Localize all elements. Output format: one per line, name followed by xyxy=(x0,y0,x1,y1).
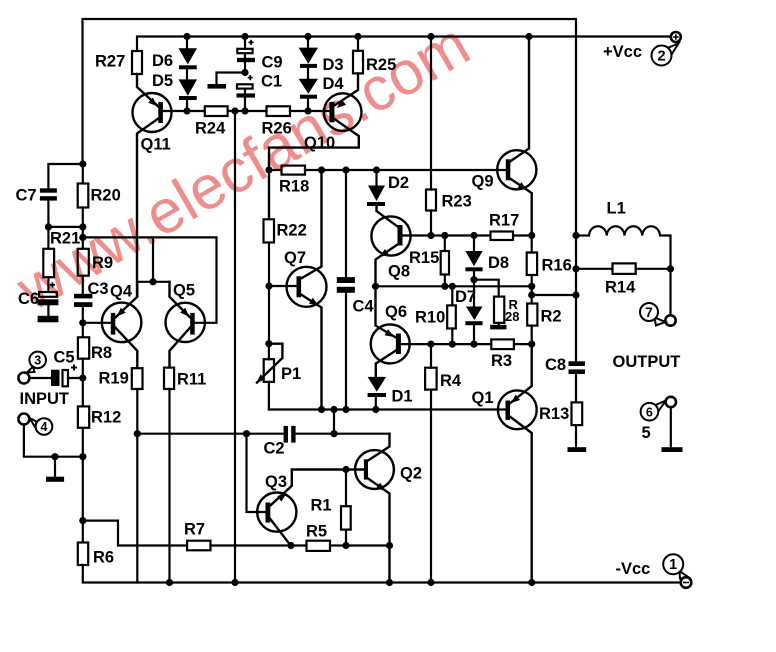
junction R18 left xyxy=(265,166,272,173)
wire C4 column xyxy=(345,170,347,410)
svg-text:Q11: Q11 xyxy=(141,136,171,154)
ground R28 xyxy=(490,325,506,330)
svg-text:R14: R14 xyxy=(605,279,636,297)
wire Q1 base line y=409.5 xyxy=(269,408,506,410)
svg-text:D5: D5 xyxy=(152,72,173,90)
svg-text:C5: C5 xyxy=(54,349,75,367)
wire Q8 base xyxy=(403,234,432,236)
svg-text:D2: D2 xyxy=(388,174,409,192)
junction Q4 base node xyxy=(79,319,86,326)
junction R2 bottom node xyxy=(528,341,535,348)
svg-text:C2: C2 xyxy=(264,440,285,458)
wire R23 bottom xyxy=(430,211,432,236)
wire R15 stubs xyxy=(444,236,446,287)
resistor R7 xyxy=(187,541,210,551)
wire feedback top border xyxy=(83,19,577,236)
capacitor C4 xyxy=(337,277,355,293)
terminal output gnd circle xyxy=(666,397,676,407)
junction Q7 collector top xyxy=(318,166,325,173)
terminal 3 xyxy=(27,352,46,373)
wire C7 top link xyxy=(48,164,82,188)
resistor R16 xyxy=(527,253,537,276)
junction bias x=245 xyxy=(241,107,248,114)
svg-text:5: 5 xyxy=(642,424,651,442)
resistor R10 xyxy=(447,305,456,328)
svg-text:R5: R5 xyxy=(306,523,327,541)
junction R1 top xyxy=(342,466,349,473)
junction D3 top xyxy=(304,33,311,40)
diode D5 xyxy=(179,79,198,100)
wire C7 bottom xyxy=(47,201,49,249)
junction D4 bottom xyxy=(304,107,311,114)
junction D8 bottom xyxy=(470,276,477,283)
resistor R12 xyxy=(78,406,89,427)
capacitor C6 xyxy=(38,282,59,305)
wire output link y=295 xyxy=(532,294,576,296)
junction D6 top xyxy=(183,33,190,40)
junction D5 bottom xyxy=(183,107,190,114)
svg-text:Q9: Q9 xyxy=(472,173,494,191)
svg-text:R16: R16 xyxy=(542,257,572,275)
terminal 6 xyxy=(641,401,666,421)
wire diff tail drop xyxy=(152,237,154,281)
wire D1 bottom xyxy=(375,397,377,410)
resistor R4 xyxy=(425,368,437,390)
wire R1 stubs xyxy=(345,470,347,546)
wire D6-D5 chain xyxy=(186,37,188,112)
wire +Vcc terminal lead xyxy=(670,35,672,37)
transistor Q5 xyxy=(166,282,205,368)
wire D7 stubs xyxy=(473,280,475,344)
wire R23 feed xyxy=(430,37,432,190)
svg-text:R6: R6 xyxy=(93,549,114,567)
junction R4 top xyxy=(427,341,434,348)
diode D3 xyxy=(299,48,318,68)
ground C8-R13 xyxy=(568,447,587,452)
junction R10 top xyxy=(449,283,456,290)
ground mid reference bar xyxy=(208,84,227,89)
wire D3-D4 chain xyxy=(307,37,309,112)
junction C9 top xyxy=(241,33,248,40)
wire output gnd xyxy=(670,407,672,447)
diode D6 xyxy=(179,48,198,69)
junction R23 top rail xyxy=(427,33,434,40)
svg-text:R7: R7 xyxy=(184,521,205,539)
transistor Q1 xyxy=(498,344,537,582)
junction x235 rail xyxy=(231,579,238,586)
resistor R19 xyxy=(132,368,143,389)
svg-text:C1: C1 xyxy=(261,73,282,91)
svg-text:6: 6 xyxy=(646,405,653,419)
svg-text:P1: P1 xyxy=(281,365,301,383)
wire R6 bottom / -Vcc rail xyxy=(83,565,681,583)
diode D4 xyxy=(299,79,318,99)
junction C7 col xyxy=(45,223,52,230)
junction gnd stub xyxy=(51,453,58,460)
svg-text:D8: D8 xyxy=(488,254,509,272)
wire link y=226.9 xyxy=(48,226,82,228)
junction Q9 collector rail xyxy=(525,33,532,40)
wire R12 bottom xyxy=(82,428,84,543)
resistor R15 xyxy=(441,251,449,275)
junction C4 top xyxy=(342,166,349,173)
transistor Q8 xyxy=(371,205,410,286)
junction input gnd xyxy=(79,453,86,460)
svg-text:+Vcc: +Vcc xyxy=(603,43,642,61)
svg-text:4: 4 xyxy=(41,420,48,434)
diode D8 xyxy=(465,251,482,271)
transistor Q7 xyxy=(287,170,327,410)
wire R14 line xyxy=(576,268,671,270)
capacitor C8 xyxy=(569,361,586,374)
resistor R5 xyxy=(307,541,331,551)
wire C9-C1 column xyxy=(244,37,246,112)
junction Q7 emitter bottom xyxy=(318,406,325,413)
svg-text:3: 3 xyxy=(34,353,41,367)
transistor Q11 xyxy=(133,74,172,297)
junction Q3 collector xyxy=(287,542,294,549)
terminal 7 xyxy=(640,303,666,326)
wire R6 tap to R7 line xyxy=(83,521,187,546)
resistor R9 xyxy=(78,249,89,276)
wire R25 top xyxy=(357,37,359,51)
junction C9-C1 mid xyxy=(241,69,248,76)
junction diff tail xyxy=(149,278,156,285)
wire C6 bottom xyxy=(47,305,49,316)
svg-text:OUTPUT: OUTPUT xyxy=(613,353,681,371)
wire R21-C6 xyxy=(47,277,49,292)
resistor R14 xyxy=(613,263,636,274)
junction R11 rail xyxy=(166,579,173,586)
resistor R23 xyxy=(426,190,436,211)
junction R14 right xyxy=(667,265,674,272)
junction D8 top xyxy=(470,232,477,239)
diode D7 xyxy=(465,307,482,326)
wire Q3 base tap xyxy=(247,434,266,512)
terminal input gnd xyxy=(18,414,29,425)
wire C2 drop xyxy=(333,410,335,434)
wire R4 column xyxy=(430,344,432,582)
junction D1 node xyxy=(372,406,379,413)
svg-text:R8: R8 xyxy=(91,344,112,362)
ground output xyxy=(662,447,683,452)
wire R2 bottom xyxy=(531,326,533,345)
svg-text:INPUT: INPUT xyxy=(20,390,70,408)
junction Q3 tap xyxy=(243,430,250,437)
junction C4 bottom xyxy=(342,406,349,413)
resistor R1 xyxy=(341,506,351,529)
svg-text:Q2: Q2 xyxy=(400,465,422,483)
wire C2 line xyxy=(137,433,389,435)
terminal -Vcc circle xyxy=(681,577,692,588)
resistor R27 xyxy=(132,51,142,74)
junction R15 bottom xyxy=(441,283,448,290)
svg-text:R17: R17 xyxy=(489,212,519,230)
svg-text:28: 28 xyxy=(505,309,519,324)
wire mid tap xyxy=(217,73,246,85)
svg-text:D1: D1 xyxy=(392,388,413,406)
capacitor C3 xyxy=(74,294,92,307)
junction R5 line right xyxy=(386,542,393,549)
svg-text:-Vcc: -Vcc xyxy=(616,560,651,578)
resistor R11 xyxy=(164,368,174,389)
diode D1 xyxy=(368,377,386,397)
junction R23 bottom xyxy=(427,232,434,239)
wire R22 bottom to P1 xyxy=(268,243,270,344)
wire C3 bottom xyxy=(82,307,84,337)
wire R19 bottom xyxy=(136,389,138,583)
svg-text:C8: C8 xyxy=(545,356,566,374)
junction C2 line left xyxy=(134,430,141,437)
transistor Q10 xyxy=(269,73,362,219)
diode D2 xyxy=(367,186,385,207)
terminal speaker hot xyxy=(665,315,675,325)
resistor R28 xyxy=(494,297,504,323)
terminal +Vcc circle xyxy=(671,32,681,42)
junction R14 left xyxy=(572,265,579,272)
wire left bus to R20 xyxy=(82,164,84,184)
resistor R21 xyxy=(43,249,54,277)
wire +Vcc rail xyxy=(137,37,671,52)
svg-text:Q8: Q8 xyxy=(388,263,410,281)
svg-text:Q6: Q6 xyxy=(385,303,407,321)
resistor R25 xyxy=(353,51,363,74)
resistor R17 xyxy=(491,232,514,241)
svg-text:R24: R24 xyxy=(195,120,226,138)
resistor R20 xyxy=(78,184,89,208)
resistor R22 xyxy=(264,219,275,242)
resistor R18 xyxy=(282,166,306,175)
svg-text:L1: L1 xyxy=(607,200,626,218)
svg-text:R27: R27 xyxy=(95,53,125,71)
svg-text:Q4: Q4 xyxy=(110,283,133,301)
terminal 4 xyxy=(30,418,53,435)
junction Q2 emitter rail xyxy=(386,579,393,586)
svg-text:R3: R3 xyxy=(491,352,512,370)
junction Q7 base xyxy=(265,282,272,289)
wire R18 line xyxy=(269,169,506,171)
resistor R6 xyxy=(78,543,88,566)
svg-text:7: 7 xyxy=(645,305,653,320)
terminal input hot xyxy=(18,373,29,384)
svg-text:R11: R11 xyxy=(177,371,206,389)
wire D2 top xyxy=(375,170,377,186)
transistor Q2 xyxy=(355,434,394,583)
junction R15 top xyxy=(441,232,448,239)
svg-text:D6: D6 xyxy=(152,52,173,70)
junction driver emitter line xyxy=(528,283,535,290)
svg-text:2: 2 xyxy=(657,49,665,65)
wire gnd stub xyxy=(54,457,56,477)
resistor R3 xyxy=(491,339,514,349)
wire R5 line xyxy=(211,544,390,546)
svg-text:Q3: Q3 xyxy=(265,473,287,491)
wire input lead xyxy=(30,377,83,379)
svg-text:R19: R19 xyxy=(99,370,129,388)
junction C5 node xyxy=(79,374,86,381)
svg-text:C9: C9 xyxy=(262,54,283,72)
wire bias line y=111 xyxy=(163,110,330,112)
resistor R24 xyxy=(205,106,228,116)
wire D8 to R28 jog xyxy=(474,280,499,297)
transistor Q9 xyxy=(497,37,536,236)
svg-text:R4: R4 xyxy=(440,372,462,390)
potentiometer P1 xyxy=(257,344,283,410)
svg-text:R22: R22 xyxy=(277,222,307,240)
junction C2 line mid xyxy=(330,430,337,437)
ground input xyxy=(46,477,64,482)
wire x=235 dropper xyxy=(234,111,236,583)
wire R20 bottom xyxy=(82,208,84,249)
svg-text:R15: R15 xyxy=(409,249,439,267)
svg-text:R23: R23 xyxy=(442,193,472,211)
capacitor C9 xyxy=(237,40,255,62)
junction bias x=235 xyxy=(231,107,238,114)
wire input gnd run xyxy=(24,425,83,457)
terminal 2 xyxy=(652,44,679,66)
junction R6 tap xyxy=(79,517,86,524)
wire R28 bottom xyxy=(498,323,500,325)
resistor R13 xyxy=(572,402,583,425)
wire D8 stubs xyxy=(473,236,475,280)
junction R20 col xyxy=(79,223,86,230)
transistor Q4 xyxy=(102,282,142,368)
wire Q4 base xyxy=(83,322,111,324)
junction output link xyxy=(528,291,535,298)
capacitor C2 xyxy=(284,426,296,443)
junction R25 top xyxy=(354,33,361,40)
inductor L1 xyxy=(576,226,671,315)
wire R16 column xyxy=(531,236,533,304)
wire R10 stubs xyxy=(451,286,453,344)
svg-text:R1: R1 xyxy=(311,497,332,515)
wire R8-C5 node xyxy=(82,359,84,407)
junction output bus y=295 xyxy=(572,291,579,298)
wire R9-C3 xyxy=(82,276,84,294)
junction D2 top xyxy=(373,166,380,173)
junction D7 bottom xyxy=(470,341,477,348)
wire bias chain line y=235.5 xyxy=(431,234,532,236)
svg-text:R10: R10 xyxy=(415,309,445,327)
junction R21 line xyxy=(79,234,86,241)
wire Q7 base xyxy=(269,285,297,287)
capacitor C5 xyxy=(51,365,77,387)
junction L1 left xyxy=(572,232,579,239)
capacitor C1 xyxy=(237,75,256,98)
junction Q8-Q6 emitters xyxy=(372,283,379,290)
svg-text:Q1: Q1 xyxy=(472,389,494,407)
capacitor C7 xyxy=(40,188,57,200)
junction R1 bottom xyxy=(342,542,349,549)
ground C6 xyxy=(38,316,59,323)
junction C2 drop top xyxy=(330,406,337,413)
junction C7 tap xyxy=(79,160,86,167)
junction R4 rail xyxy=(427,579,434,586)
svg-text:C4: C4 xyxy=(353,298,375,316)
svg-text:C7: C7 xyxy=(16,187,37,205)
resistor R8 xyxy=(78,337,89,358)
junction Q1 collector rail xyxy=(528,579,535,586)
junction R10 bottom xyxy=(449,341,456,348)
svg-text:Q5: Q5 xyxy=(173,282,195,300)
transistor Q3 xyxy=(257,470,364,547)
transistor Q6 xyxy=(371,286,410,377)
svg-text:R12: R12 xyxy=(91,409,121,427)
resistor R2 xyxy=(527,304,537,326)
svg-text:1: 1 xyxy=(669,557,677,573)
terminal 1 xyxy=(663,554,689,578)
junction Q9 emitter node xyxy=(528,232,535,239)
svg-text:R2: R2 xyxy=(541,308,562,326)
wire Q6 base / R3 line xyxy=(401,343,532,345)
wire input bias line y=237 xyxy=(83,237,217,322)
wire output bus x=576 xyxy=(575,236,577,448)
svg-text:R13: R13 xyxy=(539,405,569,423)
svg-text:Q7: Q7 xyxy=(284,249,306,267)
wire driver emitter line y=286.3 xyxy=(376,285,532,287)
wire R11 bottom xyxy=(168,389,170,583)
wire emitter bus Q4-Q5 xyxy=(137,281,169,283)
resistor R26 xyxy=(267,106,291,116)
junction P1 top xyxy=(265,340,272,347)
